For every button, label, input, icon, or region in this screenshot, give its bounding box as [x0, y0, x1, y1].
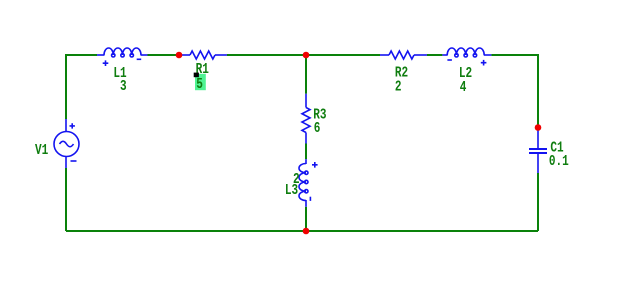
node dot D — [535, 124, 542, 131]
inductor L2 — [442, 48, 491, 66]
svg-text:2: 2 — [395, 78, 402, 95]
svg-text:V1: V1 — [35, 141, 48, 158]
wire bottom — [66, 230, 538, 232]
svg-text:5: 5 — [196, 76, 203, 93]
voltage source V1 — [54, 119, 79, 168]
svg-text:3: 3 — [120, 78, 127, 95]
selection handle — [194, 73, 199, 78]
resistor R3 — [302, 94, 310, 144]
svg-text:0.1: 0.1 — [549, 153, 569, 170]
wire below L3 — [305, 207, 307, 231]
wire left below V1 — [65, 168, 67, 231]
resistor R2 — [380, 51, 427, 59]
svg-text:6: 6 — [314, 119, 321, 136]
wire top: L1 to R1 — [148, 54, 183, 56]
node dot B — [303, 52, 310, 59]
wire top: R1 to R2 — [227, 54, 380, 56]
wire left + top-left segment — [66, 55, 97, 119]
capacitor C1 — [529, 125, 547, 173]
inductor L3 — [299, 159, 318, 207]
wire right below C1 — [537, 173, 539, 231]
wire top-right corner down — [491, 55, 538, 125]
svg-text:L3: L3 — [285, 181, 298, 198]
svg-text:4: 4 — [460, 79, 467, 96]
inductor L1 — [97, 48, 148, 66]
wire top: R2 to L2 — [427, 54, 442, 56]
node dot A — [176, 52, 183, 59]
selection highlight — [195, 74, 206, 90]
wire between R3 and L3 — [305, 144, 307, 160]
resistor R1 — [182, 51, 227, 59]
node dot C — [303, 228, 310, 235]
wire middle branch upper — [305, 55, 307, 94]
